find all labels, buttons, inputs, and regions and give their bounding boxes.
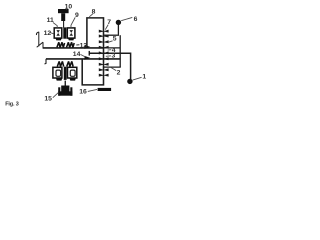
svg-text:13: 13 — [80, 42, 88, 49]
svg-text:1: 1 — [142, 73, 146, 80]
svg-text:15: 15 — [44, 95, 52, 102]
svg-text:2: 2 — [117, 69, 121, 76]
svg-text:10: 10 — [65, 3, 73, 10]
svg-text:14: 14 — [73, 51, 81, 58]
svg-text:4: 4 — [112, 47, 116, 54]
svg-text:5: 5 — [113, 35, 117, 42]
svg-text:11: 11 — [47, 17, 54, 24]
svg-text:12: 12 — [44, 30, 52, 37]
svg-text:8: 8 — [92, 9, 96, 16]
svg-text:7: 7 — [107, 19, 111, 26]
svg-text:9: 9 — [75, 12, 79, 19]
svg-text:6: 6 — [134, 16, 138, 23]
svg-text:Fig. 3: Fig. 3 — [5, 102, 19, 108]
svg-text:16: 16 — [79, 88, 87, 95]
